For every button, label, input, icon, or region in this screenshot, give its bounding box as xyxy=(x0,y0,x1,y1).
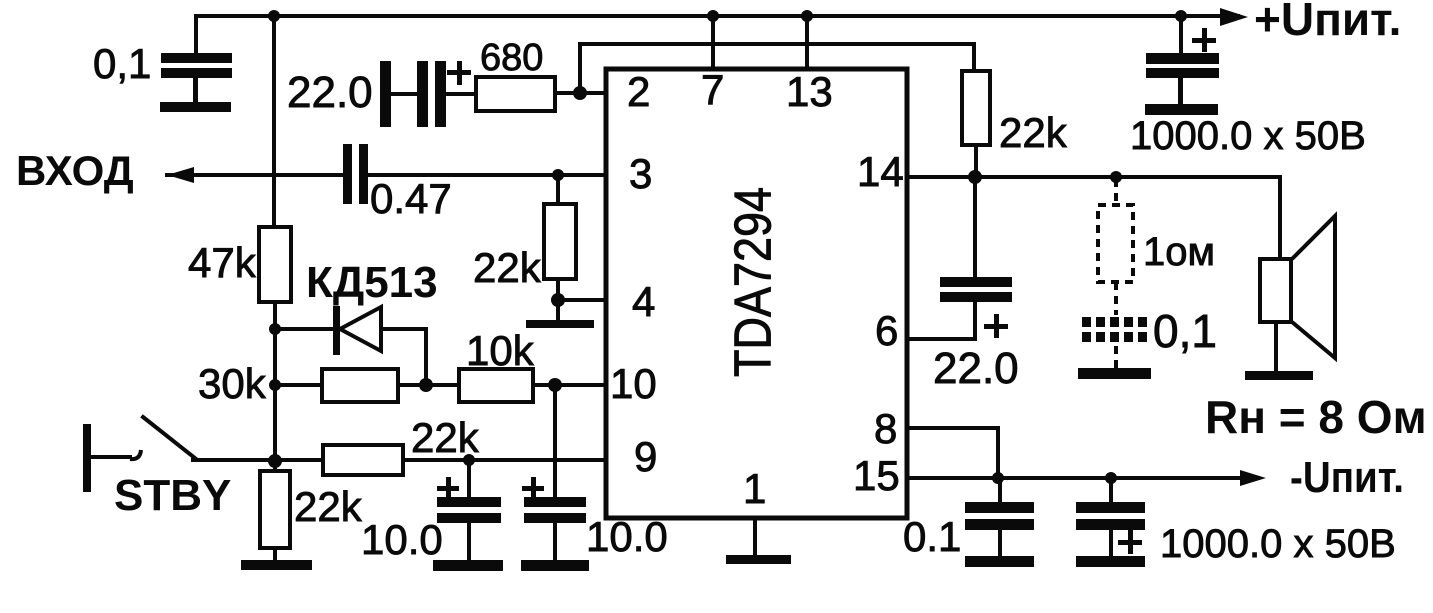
wire pin1 stub xyxy=(753,519,757,556)
resistor R1 680 xyxy=(476,77,555,111)
svg-text:9: 9 xyxy=(634,433,657,480)
capacitor C5 10.0 pin10 xyxy=(521,477,589,571)
wire diode cathode link xyxy=(381,329,426,385)
wire 30k to 10k xyxy=(398,383,459,387)
resistor R5 10k xyxy=(459,369,533,402)
wire vertical input column x274 xyxy=(272,16,276,227)
node dot pin2/680 xyxy=(573,86,587,100)
wire pin7 stub xyxy=(711,16,715,69)
svg-text:0,1: 0,1 xyxy=(1153,305,1217,357)
capacitor C4 10.0 pin9 xyxy=(433,477,503,571)
svg-text:0,1: 0,1 xyxy=(93,40,151,87)
ground pin4 xyxy=(526,320,594,328)
diode VD1 KD513 xyxy=(333,306,381,355)
svg-text:22k: 22k xyxy=(294,483,363,530)
svg-text:13: 13 xyxy=(786,68,833,115)
svg-text:10.0: 10.0 xyxy=(586,513,668,560)
svg-text:1ом: 1ом xyxy=(1143,230,1215,274)
svg-text:-Uпит.: -Uпит. xyxy=(1290,453,1404,502)
svg-text:8: 8 xyxy=(874,405,897,452)
svg-text:TDA7294: TDA7294 xyxy=(725,187,783,377)
wire 22k stby stubs xyxy=(273,461,277,471)
ground stby xyxy=(241,560,312,570)
svg-text:15: 15 xyxy=(853,452,900,499)
wire drop to C 1000 top xyxy=(1179,16,1183,53)
svg-text:47k: 47k xyxy=(188,239,257,286)
resistor R7 22k stby xyxy=(260,471,290,548)
wire 10k to pin10 xyxy=(533,383,605,387)
wire 22k feedback bottom stub xyxy=(974,145,978,177)
node dot diode left xyxy=(269,323,281,335)
wire feedback rail y44 xyxy=(580,44,974,93)
svg-text:22k: 22k xyxy=(999,109,1068,156)
wire C0.1b stub xyxy=(998,478,1002,502)
node dot C1000 top rail xyxy=(1175,10,1187,22)
svg-text:22.0: 22.0 xyxy=(287,68,373,117)
wire pin8 elbow xyxy=(909,428,998,478)
capacitor C9 0.1 -U xyxy=(965,502,1034,567)
arrow input xyxy=(167,167,194,183)
svg-text:STBY: STBY xyxy=(114,471,231,520)
node dot pin14/22k xyxy=(968,170,982,184)
resistor R4 30k xyxy=(322,369,398,402)
switch STBY xyxy=(83,424,141,492)
svg-text:+Uпит.: +Uпит. xyxy=(1254,0,1401,45)
wire STBY to node xyxy=(193,458,323,462)
svg-text:0.47: 0.47 xyxy=(370,175,452,222)
svg-text:0.1: 0.1 xyxy=(903,513,961,560)
node dot -U cap1 xyxy=(992,472,1004,484)
wire STBY lever xyxy=(143,417,196,459)
svg-text:22k: 22k xyxy=(411,414,480,461)
svg-text:30k: 30k xyxy=(198,360,267,407)
svg-text:10.0: 10.0 xyxy=(361,516,443,563)
svg-text:680: 680 xyxy=(480,37,543,79)
resistor R3 22k pin3 xyxy=(544,204,576,279)
wire 30k left xyxy=(275,383,322,387)
wire pin14 output xyxy=(909,177,1280,259)
wire C1000b stub xyxy=(1109,478,1113,502)
svg-text:10: 10 xyxy=(610,360,657,407)
capacitor C6 22.0 pin6 xyxy=(940,277,1012,338)
speaker LS1 xyxy=(1260,216,1335,358)
svg-text:3: 3 xyxy=(629,150,652,197)
arrow +U xyxy=(1220,8,1248,26)
wire 22k pin3 bottom stub xyxy=(556,279,560,322)
node dot pin9 cap xyxy=(463,454,475,466)
wire 22k pin3 top stub xyxy=(556,175,560,204)
svg-text:Rн = 8 Ом: Rн = 8 Ом xyxy=(1205,391,1427,443)
svg-text:1000.0 x 50В: 1000.0 x 50В xyxy=(1160,522,1396,566)
wire 22k pin9 right xyxy=(403,458,605,462)
svg-text:22k: 22k xyxy=(473,244,542,291)
node dot diode/10k xyxy=(419,378,433,392)
wire C10.0a stub xyxy=(467,460,471,497)
wire C22.0 left link xyxy=(391,92,417,96)
wire +U top rail xyxy=(196,14,1238,18)
wire pin4 xyxy=(558,298,605,302)
svg-text:1: 1 xyxy=(743,465,766,512)
wire R680 to pin2 xyxy=(555,91,605,95)
svg-text:2: 2 xyxy=(627,68,650,115)
svg-text:14: 14 xyxy=(857,148,904,195)
IC U1 TDA7294 xyxy=(606,69,907,518)
wire C22.0r top stub xyxy=(973,177,977,277)
wire diode anode link xyxy=(275,327,333,331)
svg-text:6: 6 xyxy=(875,307,898,354)
capacitor C2 22.0 electrolytic xyxy=(380,61,471,127)
node dot -U cap2 xyxy=(1105,472,1117,484)
svg-text:22.0: 22.0 xyxy=(933,344,1019,393)
wire pin6 to C22.0r xyxy=(909,302,975,339)
capacitor C8 0,1 dashed xyxy=(1082,322,1149,337)
wire speaker bottom xyxy=(1274,322,1278,371)
wire -U rail xyxy=(909,476,1258,480)
node dot pin13 rail xyxy=(801,10,813,22)
node dot pin14/1om xyxy=(1110,171,1122,183)
node dot top-left x274 xyxy=(268,10,280,22)
ground dashed branch xyxy=(1078,368,1151,379)
wire C10.0b strut xyxy=(553,523,557,558)
arrow -U xyxy=(1240,470,1266,486)
resistor R2 47k xyxy=(259,227,291,302)
svg-text:7: 7 xyxy=(701,66,724,113)
wire top-left drop to C 0.1 xyxy=(194,16,198,53)
wire C22.0 to R680 xyxy=(446,92,476,96)
capacitor C7 1000.0 top xyxy=(1145,28,1219,115)
resistor R9 1om dashed xyxy=(1098,179,1133,368)
node dot pin4 xyxy=(551,293,565,307)
svg-text:ВХОД: ВХОД xyxy=(16,147,134,194)
wire input line left xyxy=(167,173,343,177)
wire pin13 stub xyxy=(805,16,809,69)
svg-text:КД513: КД513 xyxy=(306,258,438,307)
wire input line right to pin3 xyxy=(368,173,605,177)
svg-text:4: 4 xyxy=(632,278,655,325)
node dot pin3/22k xyxy=(552,169,564,181)
ground speaker xyxy=(1245,371,1313,380)
node dot 30k left xyxy=(269,379,281,391)
capacitor C10 1000.0 -U xyxy=(1076,502,1145,567)
wire left bias column x275 xyxy=(273,302,277,471)
wire STBY stub xyxy=(91,455,130,459)
svg-text:10k: 10k xyxy=(466,327,535,374)
resistor R8 22k feedback xyxy=(962,71,990,145)
node dot pin10 xyxy=(548,378,562,392)
capacitor C3 0.47 input xyxy=(343,144,368,204)
ground pin1 xyxy=(726,555,791,564)
resistor R6 22k pin9 xyxy=(323,445,403,475)
wire pin10 drop to C10.0 xyxy=(553,385,557,497)
node dot STBY xyxy=(268,454,282,468)
capacitor C1 0.1 top-left xyxy=(160,53,232,112)
svg-text:1000.0 x 50В: 1000.0 x 50В xyxy=(1130,114,1366,158)
node dot pin7 rail xyxy=(707,10,719,22)
